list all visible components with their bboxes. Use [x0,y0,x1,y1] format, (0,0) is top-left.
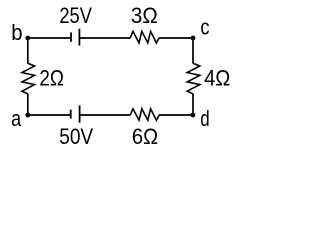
svg-text:2Ω: 2Ω [39,65,64,90]
wire resistor 3ohm to node c [159,37,193,39]
resistor R1 3ohm zigzag [130,31,159,43]
svg-text:6Ω: 6Ω [132,124,158,149]
svg-text:a: a [11,106,21,131]
node d junction dot [191,113,196,118]
wire node a up to resistor 2ohm [27,94,29,115]
resistor R3 6ohm zigzag [130,109,159,121]
battery V1 25V plates [71,29,79,46]
wire resistor 2ohm to node b [27,38,29,64]
wire node c down to resistor 4ohm [192,38,194,64]
svg-text:50V: 50V [59,124,93,149]
node b junction dot [25,36,30,41]
svg-text:d: d [200,106,209,131]
node c junction dot [191,36,196,41]
wire node d to resistor 6ohm [159,114,193,116]
node a junction dot [25,113,30,118]
wire resistor 6ohm to battery 50V [80,114,131,116]
wire resistor 4ohm to node d [192,94,194,115]
svg-text:4Ω: 4Ω [204,66,230,91]
resistor R4 2ohm zigzag [22,63,35,94]
wire b to battery 25V [28,37,71,39]
svg-text:c: c [200,15,209,40]
battery V2 50V plates [71,105,80,122]
wire battery 50V to node a [28,114,71,116]
resistor R2 4ohm zigzag [187,63,200,94]
svg-text:3Ω: 3Ω [131,3,158,28]
svg-text:25V: 25V [59,3,92,28]
wire battery 25V to resistor 3ohm [79,37,130,39]
svg-text:b: b [11,20,22,45]
